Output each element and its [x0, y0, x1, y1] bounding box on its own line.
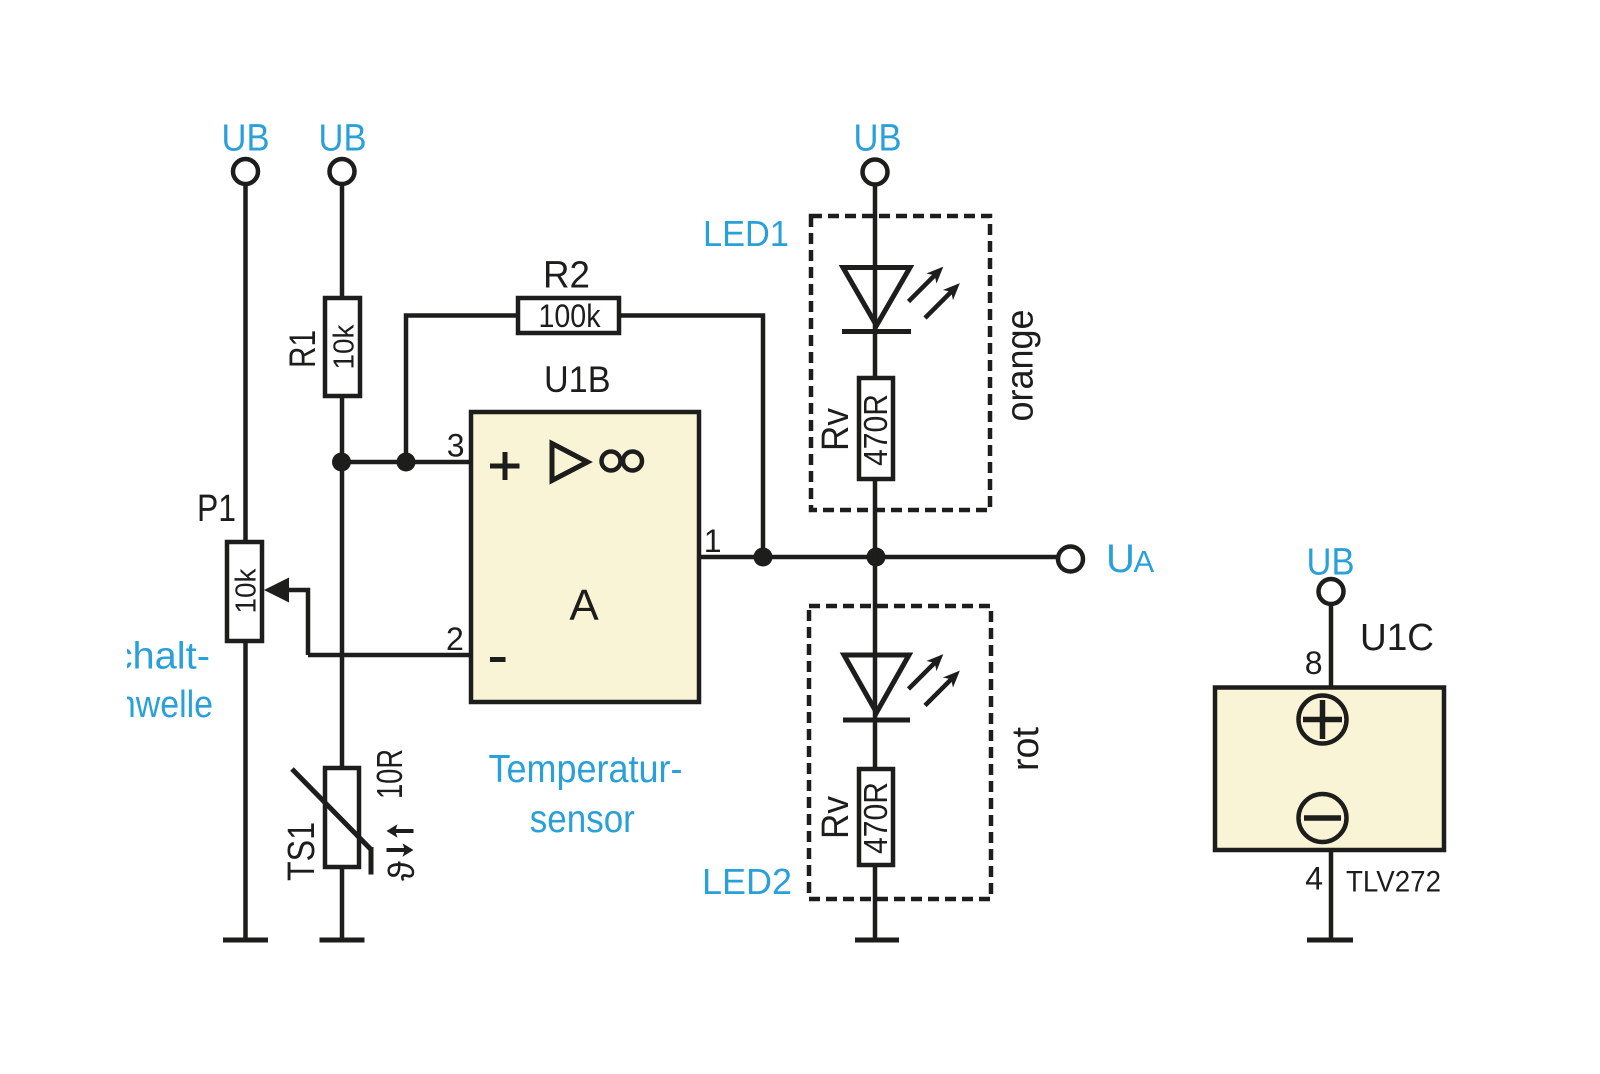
svg-text:10R: 10R — [369, 749, 410, 799]
junction dot (LED string) — [867, 548, 886, 567]
resistor R2 100k — [518, 255, 619, 335]
svg-text:rot: rot — [1005, 727, 1047, 771]
wire wiper to op-amp pin2 — [308, 653, 471, 658]
amplifier triangle symbol — [552, 444, 588, 481]
svg-text:UB: UB — [319, 118, 367, 160]
wire UB to P1 top — [243, 184, 248, 542]
LED1 light arrows — [909, 268, 959, 318]
svg-text:U: U — [1106, 537, 1135, 581]
svg-text:U1B: U1B — [544, 359, 611, 400]
node UB (U1C) — [1307, 542, 1355, 605]
svg-text:orange: orange — [1000, 310, 1042, 422]
wire up to R2 — [406, 316, 518, 463]
wire U1C to ground — [1329, 850, 1334, 940]
svg-text:R2: R2 — [543, 255, 590, 297]
Schaltschwelle label (clipped) — [83, 636, 213, 727]
output wire pin1 to UA — [699, 555, 1057, 560]
svg-text:Rv: Rv — [815, 796, 857, 839]
node UB (LED branch) — [854, 118, 902, 185]
ground (U1C) — [1307, 938, 1353, 943]
minus input symbol — [490, 657, 506, 662]
junction dot (feedback) — [754, 548, 773, 567]
resistor R1 10k — [282, 298, 361, 396]
svg-text:UB: UB — [854, 118, 902, 160]
LED1 diode — [842, 268, 911, 332]
LED2 light arrows — [909, 656, 959, 706]
wire Rv2 to ground — [873, 865, 878, 940]
svg-text:TLV272: TLV272 — [1346, 866, 1441, 899]
resistor Rv 470R (LED1) — [815, 378, 894, 479]
svg-text:470R: 470R — [857, 394, 894, 466]
wire Rv1 to junction to LED2/Rv2 — [873, 479, 878, 769]
svg-text:LED1: LED1 — [703, 213, 789, 254]
wire P1 bottom to ground — [243, 641, 248, 940]
node UB (P1 branch) — [222, 118, 270, 185]
svg-text:sensor: sensor — [530, 798, 635, 841]
ground (LED2) — [855, 938, 899, 943]
node UB (R1 branch) — [319, 118, 367, 185]
ground (P1) — [223, 938, 268, 943]
plus input symbol — [490, 452, 520, 480]
svg-text:2: 2 — [446, 621, 464, 657]
junction dot (R1/pin3) — [332, 453, 351, 472]
svg-text:470R: 470R — [857, 782, 894, 854]
ground (TS1) — [320, 938, 365, 943]
terminal UA — [1058, 537, 1155, 581]
svg-text:Rv: Rv — [815, 408, 857, 451]
wire junction to pin 3 — [342, 460, 472, 465]
minus supply symbol — [1299, 794, 1347, 842]
svg-text:1: 1 — [704, 523, 722, 559]
thermistor TS1 — [281, 749, 410, 881]
wire R1 bottom to TS1 — [340, 396, 345, 768]
TS1 theta and arrows — [381, 824, 422, 881]
potentiometer P1 — [197, 488, 263, 641]
svg-text:LED2: LED2 — [702, 861, 792, 902]
LED2 diode — [843, 655, 910, 720]
LED1 dashed box — [811, 216, 990, 510]
svg-text:R1: R1 — [282, 330, 323, 368]
svg-text:100k: 100k — [539, 298, 602, 334]
svg-text:ϑ: ϑ — [381, 861, 422, 881]
P1 wiper arrow — [264, 578, 308, 656]
op-amp U1B — [471, 359, 699, 702]
svg-text:4: 4 — [1305, 861, 1323, 897]
wire UB to R1 — [340, 184, 345, 298]
svg-text:10k: 10k — [231, 568, 263, 613]
wire UB to U1C — [1329, 604, 1334, 688]
wire TS1 to ground — [340, 867, 345, 940]
svg-text:TS1: TS1 — [281, 822, 323, 881]
svg-text:A: A — [569, 581, 599, 630]
svg-text:A: A — [1134, 544, 1155, 579]
svg-text:3: 3 — [447, 428, 465, 464]
svg-text:8: 8 — [1305, 645, 1323, 681]
op-amp U1C power block — [1215, 688, 1444, 851]
LED2 dashed box — [809, 606, 991, 899]
wire R2 right to output — [619, 316, 763, 558]
svg-text:Temperatur-: Temperatur- — [489, 748, 683, 791]
svg-text:U1C: U1C — [1360, 617, 1434, 659]
svg-text:P1: P1 — [197, 488, 236, 530]
resistor Rv 470R (LED2) — [815, 769, 894, 865]
plus supply symbol — [1299, 696, 1347, 744]
wire UB to LED1/Rv — [873, 185, 878, 379]
junction dot (R2 branch) — [397, 453, 416, 472]
infinity symbol — [602, 452, 643, 471]
Temperatursensor label — [489, 748, 683, 841]
svg-text:10k: 10k — [329, 324, 361, 369]
svg-text:UB: UB — [222, 118, 270, 160]
